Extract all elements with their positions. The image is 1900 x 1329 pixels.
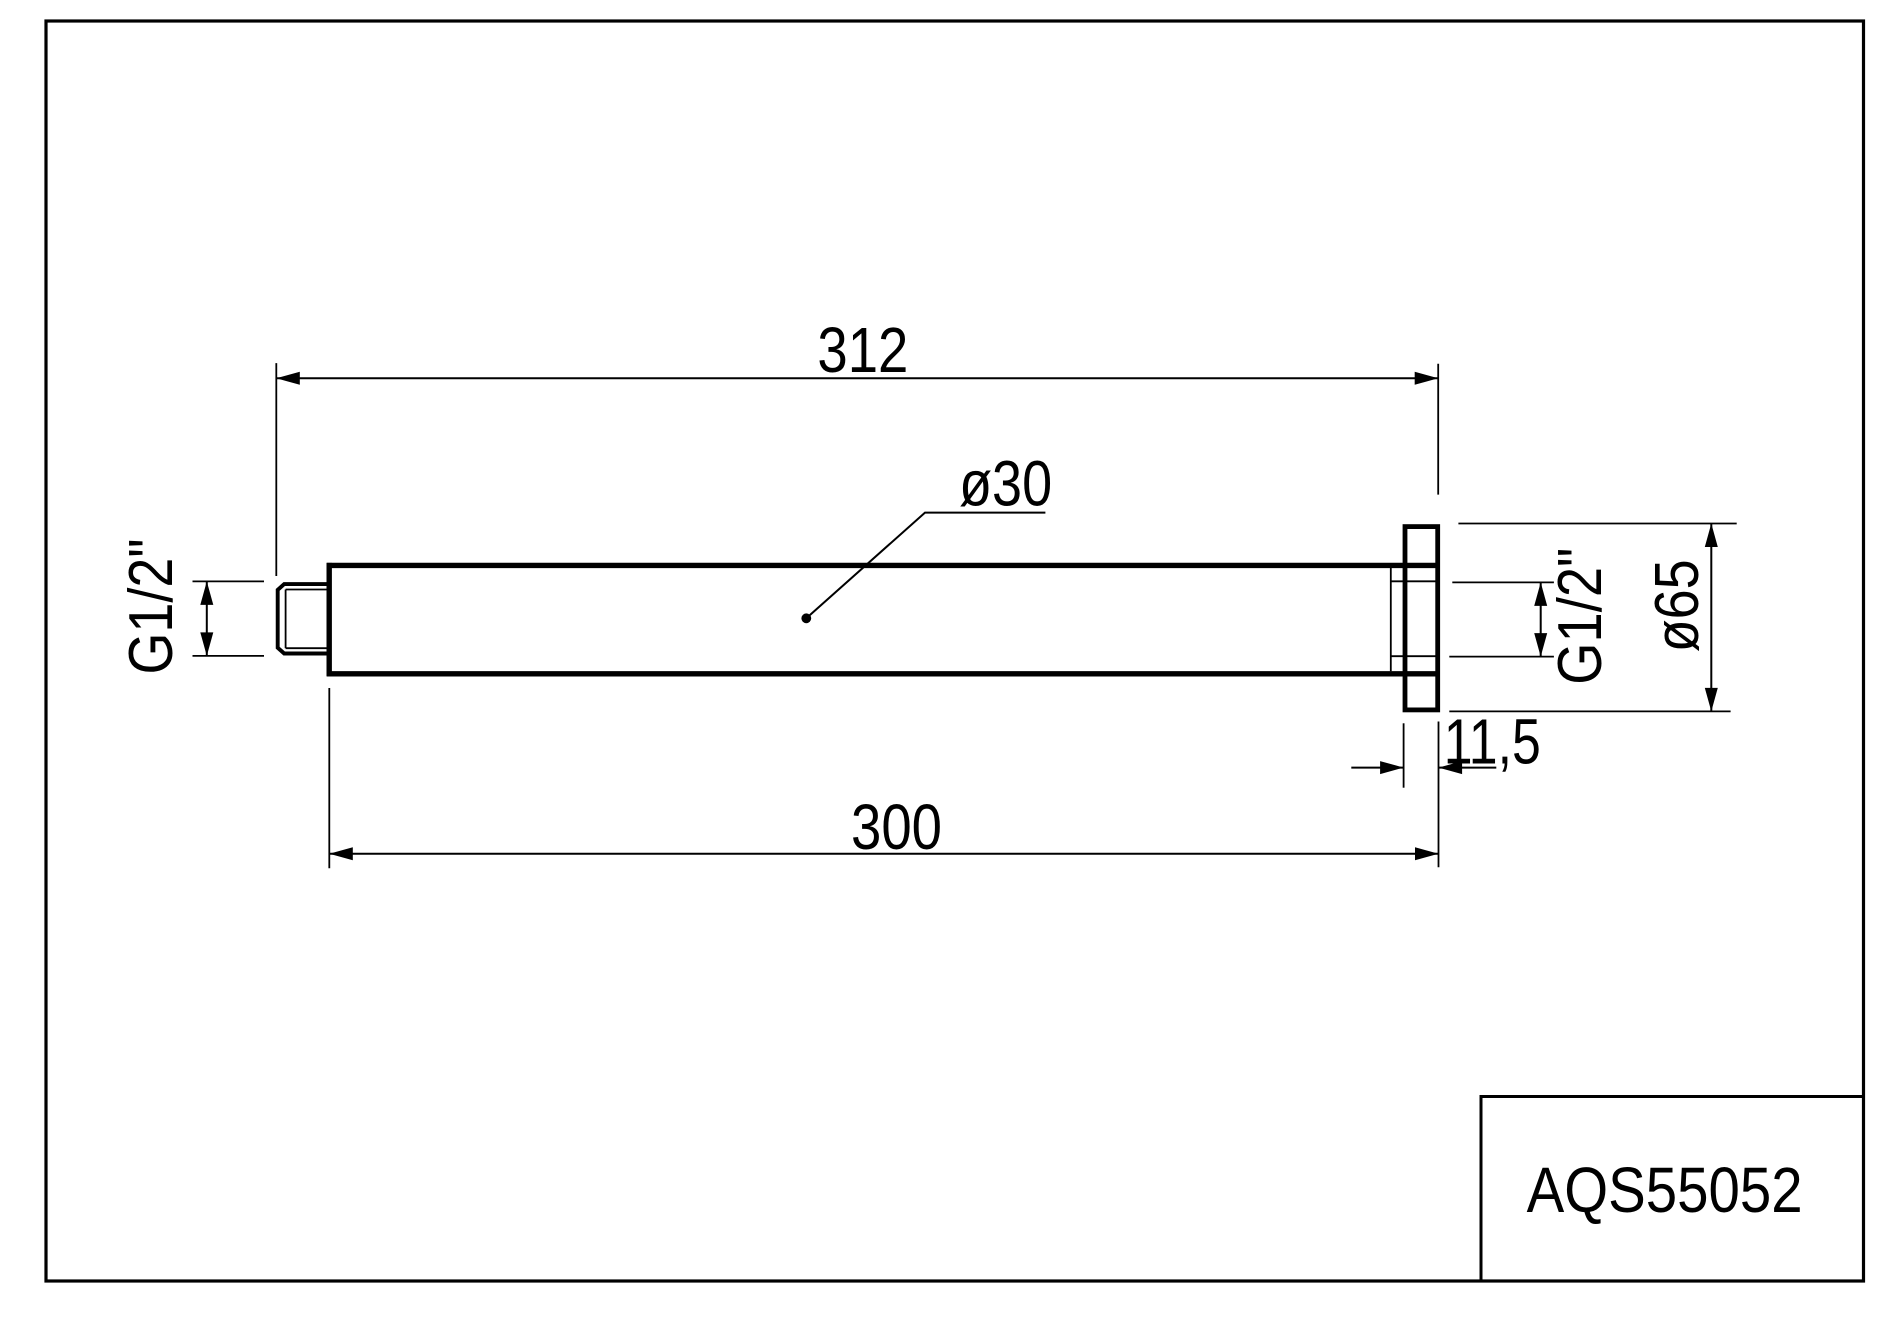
300 dimension extension lines xyxy=(328,688,330,868)
svg-text:11,5: 11,5 xyxy=(1444,706,1541,778)
11,5 dimension extension lines xyxy=(1404,722,1439,868)
left G1/2 dimension line xyxy=(206,581,208,656)
svg-text:G1/2": G1/2" xyxy=(117,539,186,675)
300 arrows xyxy=(329,847,353,860)
svg-text:ø65: ø65 xyxy=(1643,559,1712,652)
dimension 312 extension lines xyxy=(276,363,1438,576)
ø65 dimension extension lines xyxy=(1449,524,1736,712)
right G1/2 arrows xyxy=(1534,582,1547,606)
svg-text:G1/2": G1/2" xyxy=(1546,548,1615,685)
dimension 312 line xyxy=(276,377,1438,379)
300 dimension line xyxy=(329,853,1438,855)
svg-text:AQS55052: AQS55052 xyxy=(1527,1154,1803,1226)
tube body outline xyxy=(327,563,1440,676)
left G1/2 arrows xyxy=(200,581,213,605)
right G1/2 dimension line xyxy=(1540,582,1542,656)
svg-text:300: 300 xyxy=(851,791,942,863)
right G1/2 dimension extension lines xyxy=(1449,582,1554,656)
right female thread thin lines xyxy=(1391,568,1438,671)
svg-text:ø30: ø30 xyxy=(959,448,1052,520)
left G1/2 dimension extension lines xyxy=(193,581,265,656)
leader ø30 xyxy=(801,613,811,623)
left thread minor diameter thin lines xyxy=(286,590,327,649)
11,5 dimension lines with outside arrows xyxy=(1351,767,1496,769)
right flange xyxy=(1405,527,1438,710)
dimension 312 arrows xyxy=(276,372,300,385)
svg-text:312: 312 xyxy=(817,314,908,386)
ø65 arrows xyxy=(1705,524,1718,548)
left male thread outline xyxy=(278,584,330,653)
ø65 dimension line xyxy=(1710,524,1712,712)
title block box xyxy=(1481,1097,1864,1282)
